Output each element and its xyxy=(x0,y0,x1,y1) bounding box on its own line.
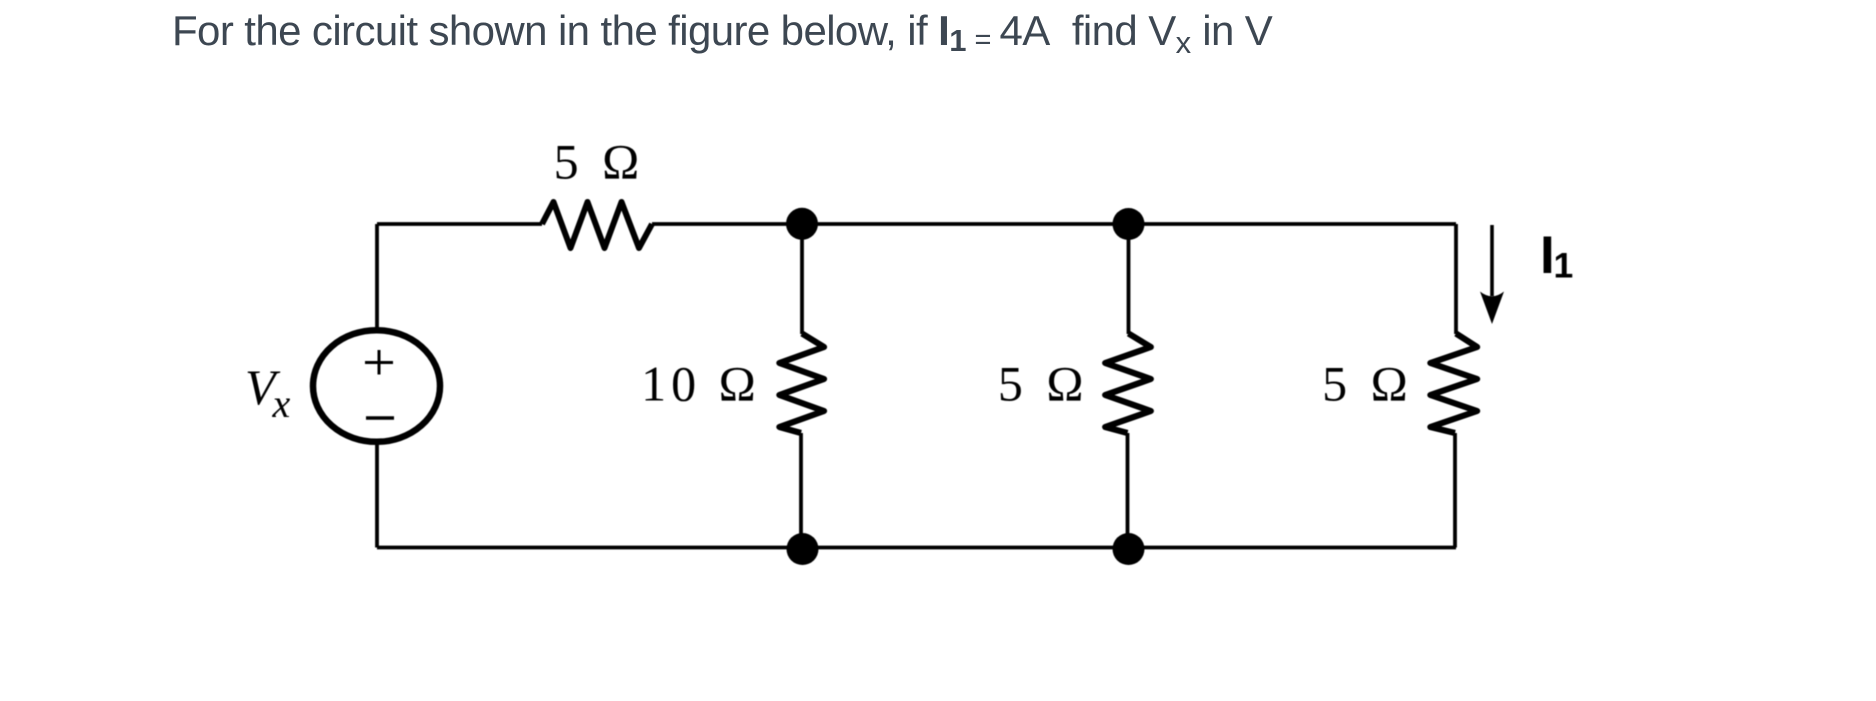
resistor R2 10ohm vertical zigzag xyxy=(779,334,824,434)
title text xyxy=(172,7,1272,61)
node dot top-left junction xyxy=(786,208,818,240)
voltage source Vx circle xyxy=(313,330,440,442)
svg-text:x: x xyxy=(272,381,291,426)
svg-text:5 Ω: 5 Ω xyxy=(1322,356,1413,412)
svg-text:5 Ω: 5 Ω xyxy=(998,356,1089,412)
svg-text:10 Ω: 10 Ω xyxy=(641,356,761,412)
wire left vertical (source top lead) xyxy=(375,224,379,330)
wire 10ohm branch top segment xyxy=(800,224,804,334)
minus sign inside source xyxy=(366,416,394,419)
resistor R1 5ohm horizontal zigzag xyxy=(542,202,652,248)
wire top-left segment xyxy=(377,222,542,226)
current arrow I1 xyxy=(1480,225,1504,324)
node dot top-right junction xyxy=(1113,208,1145,240)
resistor R4 5ohm right vertical zigzag xyxy=(1430,334,1477,434)
node dot bottom-left junction xyxy=(787,533,819,565)
label 5 ohm top resistor xyxy=(554,134,645,190)
label 10 ohm resistor xyxy=(641,356,761,412)
node dot bottom-right junction xyxy=(1113,533,1145,565)
wire right vertical top segment xyxy=(1454,224,1458,334)
label Vx source xyxy=(245,359,291,426)
wire source bottom lead xyxy=(375,442,379,548)
svg-text:5 Ω: 5 Ω xyxy=(554,134,645,190)
wire 10ohm branch bottom segment xyxy=(799,433,803,548)
wire middle 5ohm branch top segment xyxy=(1127,224,1131,334)
wire bottom rail xyxy=(377,546,1456,550)
label 5 ohm right resistor xyxy=(1322,356,1413,412)
label 5 ohm middle resistor xyxy=(998,356,1089,412)
resistor R3 5ohm middle vertical zigzag xyxy=(1105,334,1151,434)
svg-text:1: 1 xyxy=(1554,246,1574,286)
wire middle 5ohm branch bottom segment xyxy=(1126,433,1130,548)
wire top middle segment xyxy=(652,222,1456,226)
wire right vertical bottom segment xyxy=(1453,433,1457,548)
plus sign inside source xyxy=(365,350,393,375)
label I1 xyxy=(1540,226,1573,286)
